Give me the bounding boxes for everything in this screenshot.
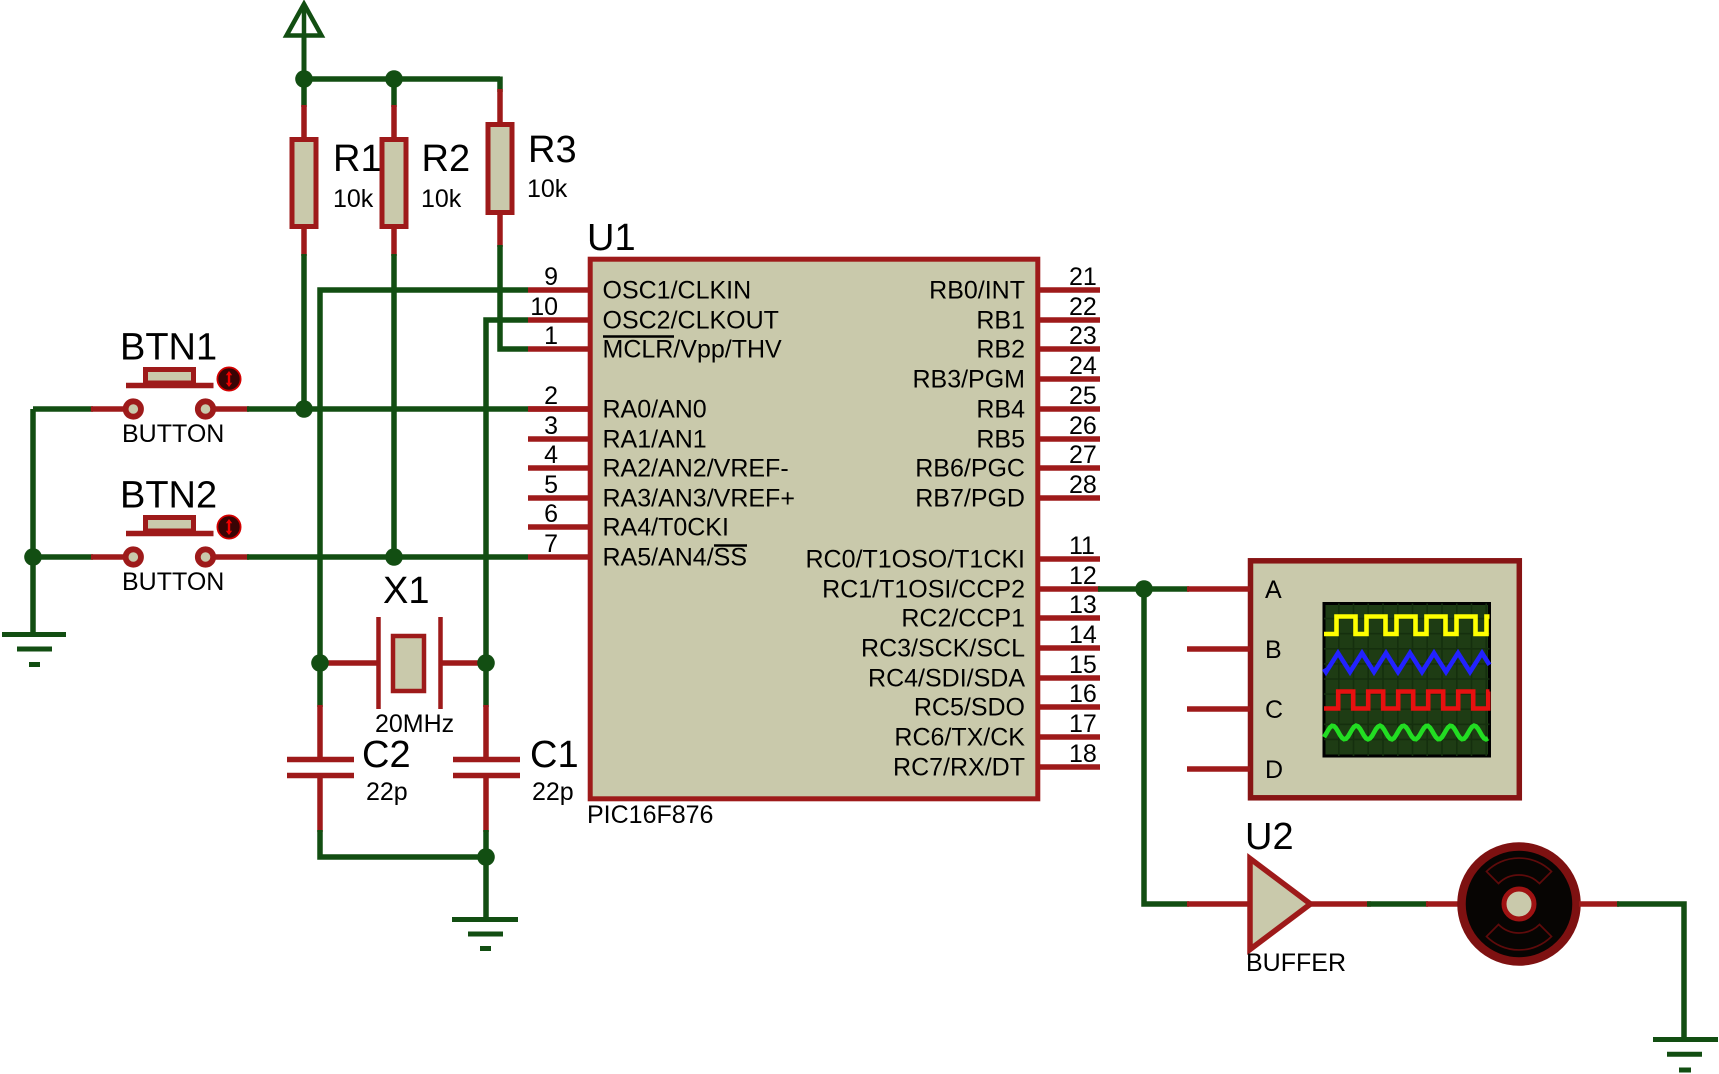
wire OSC2 to crystal [486,320,528,665]
junction BTN2 left [24,548,42,566]
pin U1 21 stub [1040,287,1100,293]
pin R2 top red [391,105,397,140]
pin U1 7 stub [528,554,588,560]
wire BTN1 to RA0 green [247,406,528,412]
wire BTN2 ground stem [30,557,36,635]
svg-text:OSC1/CLKIN: OSC1/CLKIN [603,277,752,305]
BTN1 actuator red circle [217,367,240,390]
button BTN1 [146,370,194,384]
scope trace red [1324,692,1490,709]
junction X1 left [311,654,329,672]
pin U1 12 stub [1040,586,1100,592]
svg-text:B: B [1265,636,1282,664]
wire C1 top green [483,663,489,707]
svg-text:RB2: RB2 [976,336,1025,364]
wire R2 bottom green [391,254,397,557]
pin C1 top red [483,705,489,758]
pin U1 4 stub [528,465,588,471]
power symbol VCC arrow [287,4,322,79]
pin R2 bottom red [391,227,397,256]
svg-text:RB5: RB5 [976,426,1025,454]
pin U1 23 stub [1040,346,1100,352]
pin U1 2 stub [528,406,588,412]
wire C1 to ground [483,830,489,919]
svg-text:10k: 10k [421,185,462,213]
pin BTN1 right red [215,406,249,412]
pin X1 left stub [322,660,377,666]
pin U1 24 stub [1040,376,1100,382]
svg-text:5: 5 [544,471,558,499]
wire BTN2 left green [33,554,93,560]
svg-text:10: 10 [530,293,558,321]
ground right [1653,1040,1718,1071]
svg-text:22p: 22p [532,778,574,806]
svg-text:23: 23 [1069,322,1097,350]
wire BTN1 left green [33,406,93,412]
svg-text:12: 12 [1069,562,1097,590]
svg-text:RB7/PGD: RB7/PGD [915,485,1025,513]
pin U1 13 stub [1040,615,1100,621]
junction power-R2 [385,70,403,88]
pin U1 17 stub [1040,734,1100,740]
oscilloscope body [1251,561,1520,798]
svg-text:BTN1: BTN1 [120,327,217,369]
wire power rail corner to R3 [497,77,503,93]
svg-text:U1: U1 [587,217,636,259]
ground left [2,635,66,665]
pin scope D [1187,766,1250,772]
svg-text:24: 24 [1069,352,1097,380]
svg-text:RA1/AN1: RA1/AN1 [603,426,707,454]
svg-text:18: 18 [1069,740,1097,768]
svg-text:RC0/T1OSO/T1CKI: RC0/T1OSO/T1CKI [806,546,1026,574]
ground middle [452,920,518,949]
resistor R1 [292,140,316,227]
wire R1 bottom green [301,254,307,409]
svg-text:PIC16F876: PIC16F876 [587,801,713,829]
svg-text:R3: R3 [528,129,577,171]
svg-text:25: 25 [1069,382,1097,410]
svg-text:17: 17 [1069,710,1097,738]
svg-text:RA2/AN2/VREF-: RA2/AN2/VREF- [603,455,789,483]
wire left vertical BTN1-BTN2 [30,409,36,557]
svg-text:16: 16 [1069,680,1097,708]
pin U1 26 stub [1040,436,1100,442]
svg-text:RA3/AN3/VREF+: RA3/AN3/VREF+ [603,485,795,513]
crystal X1 [379,617,441,709]
wire power rail horizontal [304,76,500,82]
svg-text:BUTTON: BUTTON [122,568,224,596]
pin U1 22 stub [1040,317,1100,323]
pin U1 25 stub [1040,406,1100,412]
motor/sounder [1462,847,1577,962]
svg-text:RA5/AN4/SS: RA5/AN4/SS [603,544,748,572]
svg-text:RB3/PGM: RB3/PGM [912,366,1025,394]
scope trace blue [1324,653,1490,672]
svg-text:28: 28 [1069,471,1097,499]
svg-text:RC1/T1OSI/CCP2: RC1/T1OSI/CCP2 [822,576,1025,604]
pin R1 top red [301,105,307,140]
svg-text:22: 22 [1069,293,1097,321]
svg-text:MCLR/Vpp/THV: MCLR/Vpp/THV [603,336,783,364]
svg-text:10k: 10k [527,175,568,203]
pin scope A [1187,586,1250,592]
svg-text:10k: 10k [333,185,374,213]
pin U1 14 stub [1040,645,1100,651]
overline MCLR [603,335,674,338]
capacitor C1 [453,760,520,776]
junction RC1 to scope/buffer [1135,580,1153,598]
wire BTN2 to RA5 green [247,554,528,560]
pin U1 27 stub [1040,465,1100,471]
svg-text:R1: R1 [333,138,382,180]
svg-text:RC6/TX/CK: RC6/TX/CK [894,724,1025,752]
svg-text:BUFFER: BUFFER [1246,949,1346,977]
pin U1 11 stub [1040,556,1100,562]
pin U1 16 stub [1040,704,1100,710]
junction BTN2-R2 [385,548,403,566]
pin X1 right stub [442,660,484,666]
svg-text:13: 13 [1069,591,1097,619]
pin C2 top red [317,705,323,758]
wire OSC1 to crystal [320,290,528,665]
pin U1 3 stub [528,436,588,442]
svg-text:BUTTON: BUTTON [122,420,224,448]
wire to buffer vertical [1144,589,1189,904]
buffer U2 [1250,859,1311,950]
junction C1-C2 ground [477,848,495,866]
svg-text:3: 3 [544,412,558,440]
svg-text:7: 7 [544,530,558,558]
svg-text:27: 27 [1069,441,1097,469]
pin buffer output red [1309,901,1371,907]
pin U1 28 stub [1040,495,1100,501]
pin C1 bottom red [483,778,489,832]
pin U1 9 stub [528,287,588,293]
svg-text:4: 4 [544,441,558,469]
pin R1 bottom red [301,227,307,256]
pin motor left red [1426,901,1459,907]
pin motor right red [1579,901,1619,907]
ic U1 body [590,259,1038,799]
scope trace yellow [1324,617,1490,635]
wire R1 top stub green [301,79,307,107]
svg-text:26: 26 [1069,412,1097,440]
overline SS [714,544,747,547]
scope screen bg [1324,604,1490,757]
svg-text:1: 1 [544,322,558,350]
svg-text:D: D [1265,756,1283,784]
resistor R3 [488,125,512,213]
wire R2 top stub green [391,79,397,107]
svg-text:21: 21 [1069,263,1097,291]
BTN2 actuator red circle [217,515,240,538]
pin BTN2 right red [215,554,249,560]
svg-text:22p: 22p [366,778,408,806]
button BTN2 [146,518,194,532]
pin U1 15 stub [1040,675,1100,681]
scope trace green [1324,726,1488,740]
svg-text:RB0/INT: RB0/INT [929,277,1025,305]
pin R3 bottom red [497,213,503,247]
svg-text:15: 15 [1069,651,1097,679]
svg-text:RB4: RB4 [976,396,1025,424]
svg-text:2: 2 [544,382,558,410]
svg-text:11: 11 [1069,532,1095,560]
pin U1 1 stub [528,346,588,352]
junction BTN1-R1 [295,400,313,418]
wire motor to ground green [1617,904,1684,1039]
junction power-R1 [295,70,313,88]
capacitor C2 [287,760,354,776]
svg-text:BTN2: BTN2 [120,475,217,517]
pin BTN2 left red [91,554,124,560]
pin scope C [1187,706,1250,712]
svg-text:RC7/RX/DT: RC7/RX/DT [893,754,1025,782]
pin C2 bottom red [317,778,323,832]
svg-text:RC5/SDO: RC5/SDO [914,694,1025,722]
wire C2 bottom green [320,830,486,857]
svg-text:A: A [1265,576,1282,604]
svg-text:RB1: RB1 [976,307,1025,335]
svg-text:RB6/PGC: RB6/PGC [915,455,1025,483]
svg-text:OSC2/CLKOUT: OSC2/CLKOUT [603,307,779,335]
scope screen grid [1324,604,1490,757]
wire R3 bottom green to MCLR [500,245,528,349]
pin buffer input red [1187,901,1251,907]
svg-text:RC2/CCP1: RC2/CCP1 [901,605,1025,633]
pin U1 6 stub [528,524,588,530]
pin BTN1 left red [91,406,124,412]
svg-text:RA0/AN0: RA0/AN0 [603,396,707,424]
resistor R2 [382,140,406,227]
junction X1 right [477,654,495,672]
pin R3 top red [497,89,503,125]
pin U1 12 wire green [1098,586,1189,592]
pin scope B [1187,646,1250,652]
wire C2 top green [317,663,323,707]
wire buffer to motor green [1367,901,1428,907]
pin U1 10 stub [528,317,588,323]
svg-text:RA4/T0CKI: RA4/T0CKI [603,514,729,542]
pin U1 RA0 stub [528,406,588,412]
svg-text:RC4/SDI/SDA: RC4/SDI/SDA [868,665,1025,693]
svg-text:RC3/SCK/SCL: RC3/SCK/SCL [861,635,1025,663]
svg-text:U2: U2 [1245,816,1294,858]
svg-text:14: 14 [1069,621,1097,649]
svg-text:C2: C2 [362,734,411,776]
svg-text:6: 6 [544,500,558,528]
svg-text:9: 9 [544,263,558,291]
pin U1 18 stub [1040,764,1100,770]
pin U1 5 stub [528,495,588,501]
svg-text:X1: X1 [383,570,429,612]
svg-text:C: C [1265,696,1283,724]
svg-text:R2: R2 [422,138,471,180]
svg-text:C1: C1 [530,734,579,776]
